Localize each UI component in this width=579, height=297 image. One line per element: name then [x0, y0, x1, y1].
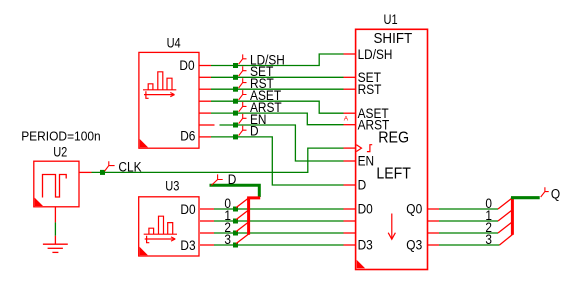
- U1 rising edge symbol: [367, 145, 372, 152]
- svg-text:LD/SH: LD/SH: [358, 47, 393, 62]
- junction bus tap D2: [233, 231, 238, 236]
- U2 corner triangle: [35, 198, 43, 206]
- U3 corner triangle: [140, 247, 148, 255]
- U1 corner triangle: [357, 260, 365, 268]
- flag ARST: [239, 102, 247, 112]
- wire ASET net: [199, 101, 356, 113]
- bus tap diagonal Q3 (right): [500, 234, 513, 245]
- svg-text:RST: RST: [358, 82, 382, 97]
- bus Q thick green horizontal: [511, 196, 540, 199]
- wire U3.D3 to U1.D3: [200, 244, 356, 246]
- wire RST net: [199, 88, 356, 90]
- U4 pattern waveform icon: [143, 72, 176, 99]
- component U3 pattern generator box: [139, 197, 199, 256]
- wire U1.Q0 output: [428, 208, 499, 210]
- svg-text:Q: Q: [551, 186, 560, 201]
- ground: [43, 244, 68, 252]
- svg-text:D0: D0: [179, 58, 194, 73]
- svg-text:PERIOD=100n: PERIOD=100n: [21, 129, 101, 144]
- junction ARST: [233, 111, 238, 116]
- svg-text:U1: U1: [384, 12, 398, 27]
- flag SET: [239, 66, 247, 76]
- wire U3.D0 to U1.D0: [200, 208, 356, 210]
- svg-text:D0: D0: [180, 202, 195, 217]
- net label flag CLK: [105, 161, 115, 171]
- junction SET: [233, 75, 238, 80]
- flag EN: [239, 114, 247, 124]
- svg-text:D: D: [250, 124, 259, 139]
- bus D thick red segment: [249, 198, 261, 235]
- svg-text:Q0: Q0: [406, 202, 422, 217]
- junction bus tap D1: [233, 219, 238, 224]
- flag ASET: [239, 90, 247, 100]
- svg-text:LEFT: LEFT: [376, 166, 411, 183]
- bus tap diagonal Q2 (right): [498, 222, 512, 233]
- flag D: [239, 126, 247, 136]
- U3 pattern waveform icon: [144, 216, 177, 243]
- flag LD/SH: [239, 54, 247, 64]
- wire U3.D2 to U1: [200, 232, 356, 234]
- bus tap diagonal Q1 (right): [498, 210, 512, 221]
- junction bus tap D0: [233, 207, 238, 212]
- wire ARST net: [199, 113, 356, 125]
- bus tap diagonal D0 (left): [236, 198, 248, 208]
- svg-text:D: D: [228, 172, 237, 187]
- junction D: [233, 134, 238, 139]
- bus tap diagonal Q0 (right): [498, 198, 512, 209]
- wire U1.Q1 output: [428, 220, 499, 222]
- junction square CLK: [100, 170, 105, 175]
- svg-text:D0: D0: [358, 202, 373, 217]
- bus label flag D: [211, 174, 222, 185]
- junction EN: [233, 123, 238, 128]
- svg-text:D3: D3: [358, 238, 373, 253]
- junction ASET: [233, 99, 238, 104]
- junction LD/SH: [233, 63, 238, 68]
- svg-text:3: 3: [485, 232, 492, 247]
- wire D net (serial data): [199, 137, 356, 185]
- junction bus tap D3: [233, 243, 238, 248]
- svg-text:D6: D6: [180, 128, 195, 143]
- wire SET net: [199, 76, 356, 78]
- bus tap diagonal D2 (left): [236, 222, 248, 232]
- wire U3.D1 to U1: [200, 220, 356, 222]
- svg-text:SHIFT: SHIFT: [374, 30, 413, 47]
- U2 clock waveform icon: [43, 175, 67, 198]
- wire CLK net from U2 to U1 clock: [79, 148, 356, 172]
- component U2 pulse generator box: [34, 161, 79, 207]
- svg-text:D: D: [358, 178, 367, 193]
- svg-text:A: A: [344, 116, 349, 123]
- bus label flag Q: [541, 187, 549, 197]
- component U1 shift register box: [356, 29, 428, 269]
- U1 clock pin chevron: [356, 145, 361, 152]
- svg-text:U3: U3: [165, 179, 179, 194]
- svg-text:CLK: CLK: [118, 159, 141, 174]
- svg-text:3: 3: [224, 232, 231, 247]
- svg-text:D3: D3: [180, 238, 195, 253]
- wire LD/SH net U4.D0 to U1: [199, 54, 356, 66]
- bus tap diagonal D3 (left): [236, 234, 248, 244]
- flag RST: [239, 78, 247, 88]
- U4 corner triangle: [140, 139, 148, 147]
- wire U1.Q2 output: [428, 232, 499, 234]
- bus Q thick red vertical: [511, 197, 514, 235]
- junction RST: [233, 87, 238, 92]
- svg-text:Q3: Q3: [406, 238, 422, 253]
- wire U1.Q3 output: [428, 244, 500, 246]
- svg-text:U4: U4: [167, 36, 181, 51]
- svg-text:EN: EN: [358, 154, 375, 169]
- wire EN net: [199, 125, 356, 161]
- component U4 pattern generator box: [139, 52, 199, 148]
- bus D thick green segment: [210, 185, 260, 197]
- bus tap diagonal D1 (left): [236, 210, 248, 220]
- ground wire below U2: [54, 207, 56, 244]
- svg-text:U2: U2: [53, 144, 67, 159]
- svg-text:ARST: ARST: [358, 117, 390, 132]
- U1 shift direction arrow: [388, 214, 395, 240]
